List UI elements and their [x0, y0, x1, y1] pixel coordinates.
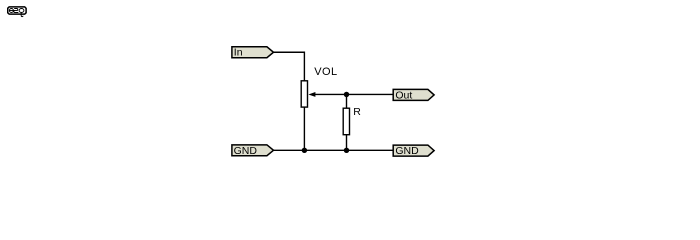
svg-text:Out: Out [395, 89, 412, 101]
wire pot bottom to GND rail [303, 108, 305, 151]
tag GND right [393, 145, 434, 157]
tag In [232, 47, 274, 59]
esp logo [8, 7, 26, 17]
node R/GND [344, 148, 349, 153]
svg-text:R: R [353, 106, 361, 118]
svg-text:GND: GND [395, 145, 419, 157]
potentiometer wiper arrow [308, 92, 315, 97]
svg-text:GND: GND [234, 145, 258, 157]
wire wiper to Out tag [315, 93, 393, 95]
node pot/GND [302, 148, 307, 153]
node junction wiper/R [344, 92, 349, 97]
tag Out [393, 89, 434, 101]
wire junction down to R top [346, 94, 348, 108]
GND rail wire [274, 149, 394, 151]
potentiometer VOL body [301, 81, 307, 107]
wire In to pot top [274, 52, 305, 80]
wire R bottom to GND rail [346, 135, 348, 151]
resistor R body [343, 108, 349, 135]
svg-text:VOL: VOL [314, 66, 337, 78]
svg-text:In: In [234, 47, 243, 59]
tag GND left [232, 145, 274, 157]
